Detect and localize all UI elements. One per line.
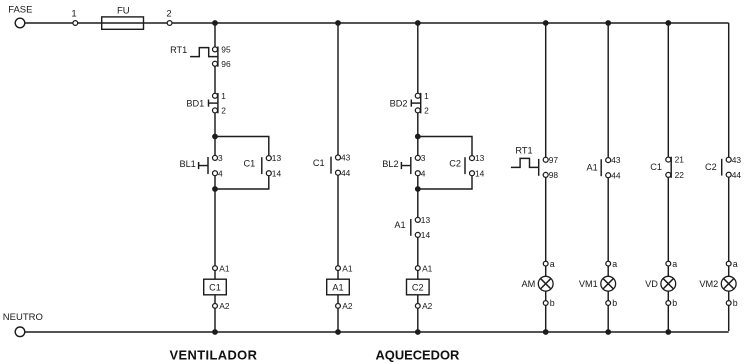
wire C2 14 to node <box>418 176 472 189</box>
lamp AM <box>522 259 555 308</box>
svg-text:44: 44 <box>611 170 621 180</box>
svg-text:AQUECEDOR: AQUECEDOR <box>376 347 460 362</box>
wire bus to C1 21 <box>667 23 669 157</box>
svg-text:A1: A1 <box>219 263 230 273</box>
svg-text:b: b <box>612 298 617 308</box>
wire C1 22 to lamp VD <box>667 178 669 262</box>
junction bottom bus branch C2 <box>415 329 421 335</box>
svg-text:2: 2 <box>221 106 226 116</box>
svg-text:C1: C1 <box>209 282 221 292</box>
pushbutton BL2 contact 3-4 (NO) <box>411 153 426 178</box>
coil A1 <box>327 263 353 311</box>
svg-text:43: 43 <box>611 155 621 165</box>
svg-text:A1: A1 <box>342 263 353 273</box>
junction bottom bus lamp VD <box>665 329 671 335</box>
lamp VM1 <box>579 259 617 308</box>
junction bottom bus branch A1 <box>335 329 341 335</box>
wire A1 14 to coil C2 <box>417 237 419 265</box>
pushbutton BD1 contact 1-2 (NC) <box>213 91 227 116</box>
svg-text:4: 4 <box>421 168 426 178</box>
svg-text:97: 97 <box>549 155 559 165</box>
svg-text:VM2: VM2 <box>699 279 718 289</box>
svg-text:2: 2 <box>166 8 171 19</box>
wire parallel top to C1 13 <box>215 137 269 156</box>
svg-text:BD1: BD1 <box>186 98 204 108</box>
svg-text:44: 44 <box>732 170 742 180</box>
svg-text:a: a <box>612 259 617 269</box>
svg-text:A1: A1 <box>394 220 405 230</box>
svg-text:FASE: FASE <box>8 5 32 16</box>
wire BL1 4 to node <box>214 176 216 189</box>
svg-text:1: 1 <box>424 91 429 101</box>
wire A1 44 to lamp VM1 <box>607 178 609 261</box>
pushbutton BL1 contact 3-4 (NO) <box>208 153 223 178</box>
terminal 1 <box>71 8 77 25</box>
svg-text:1: 1 <box>71 8 76 19</box>
wire lamp VD to neutral bus <box>667 305 669 332</box>
BL1 pushbutton actuator <box>199 162 208 169</box>
lamp VD <box>645 259 677 308</box>
BD2 pushbutton actuator <box>411 100 420 107</box>
wire C1 14 to node <box>215 176 269 189</box>
svg-text:C2: C2 <box>412 282 424 292</box>
RT1 thermal actuator (lamp branch) <box>511 158 539 167</box>
contact C2 43-44 (NO) <box>722 155 742 180</box>
wire bottom bus <box>25 331 729 333</box>
wire node to BL1 3 <box>214 137 216 156</box>
thermal relay contact RT1 95-96 (NC) <box>213 45 231 69</box>
wire FASE to terminal 1 <box>25 22 73 24</box>
wire node to A1 13 <box>417 189 419 218</box>
svg-text:NEUTRO: NEUTRO <box>3 312 43 323</box>
svg-text:RT1: RT1 <box>515 146 532 156</box>
svg-text:3: 3 <box>421 153 426 163</box>
svg-text:b: b <box>733 298 738 308</box>
svg-text:14: 14 <box>272 168 282 178</box>
svg-text:VM1: VM1 <box>579 279 598 289</box>
junction top bus branch A1 <box>335 20 341 26</box>
wire bus to RT1 95 <box>214 23 216 47</box>
svg-text:13: 13 <box>475 153 485 163</box>
junction parallel bottom (branch C1) <box>212 186 218 192</box>
svg-text:C2: C2 <box>705 162 717 172</box>
junction top bus lamp VD <box>665 20 671 26</box>
wire lamp VM1 to neutral bus <box>607 305 609 332</box>
junction bottom bus lamp AM <box>543 329 549 335</box>
svg-text:A1: A1 <box>332 282 343 292</box>
wire parallel top to C2 13 <box>418 137 472 156</box>
wire terminal 1 to FU <box>78 22 102 24</box>
junction top bus branch C2 <box>415 20 421 26</box>
wire C1 44 to coil A1 <box>337 175 339 266</box>
svg-text:C1: C1 <box>313 158 325 168</box>
wire BL2 4 to node <box>417 176 419 189</box>
svg-text:C2: C2 <box>449 159 461 169</box>
wire coil C1 to neutral bus <box>214 308 216 332</box>
node FASE <box>8 5 32 28</box>
svg-text:BD2: BD2 <box>390 98 408 108</box>
contact C2 13-14 (NO) <box>465 153 485 178</box>
junction bottom bus branch C1 <box>212 329 218 335</box>
svg-text:A2: A2 <box>219 301 230 311</box>
junction top bus lamp VM1 <box>605 20 611 26</box>
wire node to coil C1 <box>214 189 216 266</box>
svg-text:4: 4 <box>218 168 223 178</box>
svg-text:A2: A2 <box>342 301 353 311</box>
coil C2 <box>407 263 433 311</box>
wire FU to terminal 2 <box>144 22 168 24</box>
svg-text:A2: A2 <box>422 301 433 311</box>
contact A1 13-14 (NO) <box>411 215 431 240</box>
wire RT1 96 to BD1 1 <box>214 67 216 94</box>
svg-text:21: 21 <box>675 155 685 165</box>
svg-text:2: 2 <box>424 106 429 116</box>
svg-text:3: 3 <box>218 153 223 163</box>
wire bus to RT1 97 <box>545 23 547 157</box>
BL2 pushbutton actuator <box>401 162 410 169</box>
terminal 2 <box>166 8 172 25</box>
wire top bus L1 <box>172 22 729 24</box>
svg-text:22: 22 <box>675 170 685 180</box>
svg-text:96: 96 <box>221 59 231 69</box>
wire bus to BD2 1 <box>417 23 419 93</box>
thermal relay contact RT1 97-98 (NO) <box>539 155 559 180</box>
junction top bus branch C1 <box>212 20 218 26</box>
junction parallel top (branch C2) <box>415 134 421 140</box>
junction top bus lamp AM <box>543 20 549 26</box>
svg-text:13: 13 <box>272 153 282 163</box>
svg-text:43: 43 <box>341 153 351 163</box>
svg-text:A1: A1 <box>586 162 597 172</box>
fuse FU <box>102 5 144 29</box>
svg-text:14: 14 <box>421 230 431 240</box>
svg-text:BL2: BL2 <box>382 159 398 169</box>
svg-text:95: 95 <box>221 45 231 55</box>
BD1 pushbutton actuator <box>209 100 218 107</box>
svg-text:b: b <box>550 298 555 308</box>
svg-text:A1: A1 <box>422 263 433 273</box>
svg-text:a: a <box>550 259 555 269</box>
wire lamp VM2 to neutral bus corner <box>728 305 730 331</box>
svg-text:AM: AM <box>522 279 536 289</box>
node NEUTRO <box>3 312 43 337</box>
svg-text:VD: VD <box>645 279 658 289</box>
wire node to BL2 3 <box>417 137 419 156</box>
svg-text:C1: C1 <box>650 162 662 172</box>
wire top bus corner down <box>728 23 730 157</box>
wire BD1 2 to node <box>214 113 216 136</box>
wire coil C2 to neutral bus <box>417 308 419 332</box>
wire bus to C1 43 <box>337 23 339 155</box>
contact A1 43-44 (NO) <box>601 155 621 180</box>
svg-text:43: 43 <box>732 155 742 165</box>
svg-text:b: b <box>672 298 677 308</box>
contact C1 13-14 (NO) <box>262 153 282 178</box>
lamp VM2 <box>699 259 737 308</box>
wire bus to A1 43 <box>607 23 609 157</box>
svg-text:98: 98 <box>549 170 559 180</box>
svg-text:C1: C1 <box>244 159 256 169</box>
wire RT1 98 to lamp AM <box>545 178 547 262</box>
svg-text:1: 1 <box>221 91 226 101</box>
wire C2 44 to lamp VM2 <box>728 177 730 261</box>
svg-text:FU: FU <box>117 5 130 16</box>
wire BD2 2 to node <box>417 113 419 136</box>
junction parallel bottom (branch C2) <box>415 186 421 192</box>
svg-text:a: a <box>733 259 738 269</box>
svg-text:VENTILADOR: VENTILADOR <box>170 347 258 362</box>
coil C1 <box>204 263 230 311</box>
svg-text:BL1: BL1 <box>179 159 195 169</box>
svg-text:44: 44 <box>341 168 351 178</box>
wire lamp AM to neutral bus <box>545 305 547 332</box>
junction parallel top (branch C1) <box>212 134 218 140</box>
svg-text:a: a <box>672 259 677 269</box>
junction bottom bus lamp VM1 <box>605 329 611 335</box>
contact C1 21-22 (NC) <box>666 155 684 180</box>
contact C1 43-44 (NO) <box>331 153 351 178</box>
svg-text:RT1: RT1 <box>170 45 187 55</box>
RT1 thermal actuator <box>190 48 218 57</box>
wire coil A1 to neutral bus <box>337 308 339 332</box>
pushbutton BD2 contact 1-2 (NC) <box>415 91 429 116</box>
svg-text:14: 14 <box>475 168 485 178</box>
svg-text:13: 13 <box>421 215 431 225</box>
